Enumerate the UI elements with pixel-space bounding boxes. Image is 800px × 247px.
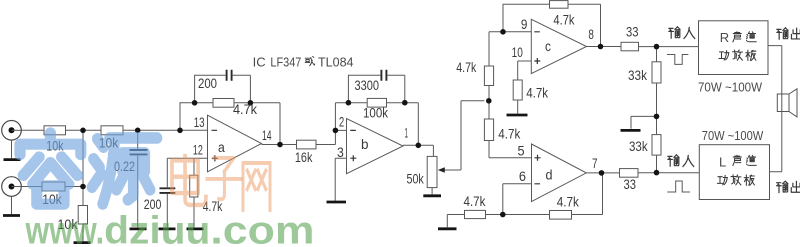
svg-text:.com: .com	[210, 210, 314, 247]
svg-text:5: 5	[518, 144, 525, 159]
svg-text:16k: 16k	[295, 150, 313, 165]
svg-text:d: d	[546, 167, 553, 182]
svg-text:4.7k: 4.7k	[464, 194, 486, 209]
svg-text:14: 14	[262, 128, 272, 143]
svg-text:LF347: LF347	[270, 54, 301, 69]
svg-text:7: 7	[592, 156, 598, 171]
svg-text:2: 2	[339, 115, 344, 130]
svg-text:33: 33	[624, 177, 637, 192]
svg-text:100k: 100k	[363, 106, 388, 121]
svg-text:R: R	[720, 30, 729, 45]
svg-text:4.7k: 4.7k	[553, 12, 574, 27]
svg-text:70W ~100W: 70W ~100W	[702, 128, 764, 143]
svg-text:6: 6	[519, 169, 526, 184]
svg-text:8: 8	[588, 27, 594, 42]
svg-text:3300: 3300	[355, 78, 380, 93]
svg-text:4.7k: 4.7k	[233, 102, 257, 117]
svg-text:4.7k: 4.7k	[498, 127, 520, 142]
svg-text:70W ~100W: 70W ~100W	[698, 80, 763, 95]
svg-text:b: b	[361, 137, 369, 152]
svg-text:L: L	[719, 155, 726, 170]
svg-text:50k: 50k	[407, 171, 424, 186]
svg-text:4.7k: 4.7k	[526, 85, 548, 100]
svg-text:12: 12	[193, 142, 203, 157]
svg-text:a: a	[218, 140, 225, 155]
svg-text:www.: www.	[25, 210, 104, 247]
svg-text:TL084: TL084	[318, 54, 354, 69]
svg-text:4.7k: 4.7k	[456, 60, 476, 75]
svg-text:200: 200	[198, 76, 217, 91]
svg-text:dziuu: dziuu	[104, 210, 210, 247]
svg-text:c: c	[545, 39, 551, 54]
svg-text:33k: 33k	[629, 139, 648, 154]
svg-text:1: 1	[405, 126, 409, 141]
svg-text:13: 13	[194, 115, 205, 130]
svg-text:IC: IC	[253, 54, 266, 69]
svg-text:33k: 33k	[628, 68, 647, 83]
svg-text:33: 33	[626, 25, 639, 40]
svg-text:4.7k: 4.7k	[557, 195, 579, 210]
svg-text:10: 10	[512, 45, 523, 60]
svg-text:9: 9	[521, 17, 528, 32]
svg-text:3: 3	[337, 145, 344, 160]
